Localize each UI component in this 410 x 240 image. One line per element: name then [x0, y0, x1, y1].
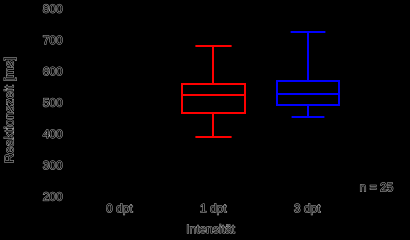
label x3dpt: [294, 204, 320, 215]
label x1dpt: [201, 204, 227, 215]
y axis (black, invisible on black background): [65, 3, 67, 197]
blue top whisker line: [307, 32, 309, 81]
red box: [182, 84, 245, 113]
red top whisker line: [212, 46, 214, 84]
blue bottom whisker line: [307, 105, 309, 117]
label y800: [43, 4, 62, 13]
blue box: [277, 81, 339, 105]
red bottom whisker cap: [195, 136, 231, 138]
label y700: [43, 36, 62, 45]
label x0dpt: [107, 204, 133, 215]
label n25: [360, 183, 392, 192]
blue median: [276, 93, 340, 95]
label y400: [43, 130, 62, 139]
red median: [181, 94, 245, 96]
label y500: [43, 98, 62, 107]
label ytitle: [4, 58, 16, 162]
label xtitle: [187, 224, 235, 233]
red boxplot (1 dpt): [181, 46, 245, 137]
label y200: [43, 192, 62, 201]
blue boxplot (3 dpt): [276, 32, 340, 117]
blue top whisker cap: [291, 31, 326, 33]
label y600: [43, 67, 62, 76]
blue bottom whisker cap: [292, 116, 325, 118]
red top whisker cap: [195, 45, 231, 47]
label y300: [43, 161, 62, 170]
red bottom whisker line: [212, 113, 214, 137]
x axis (black, invisible on black background): [66, 196, 384, 198]
